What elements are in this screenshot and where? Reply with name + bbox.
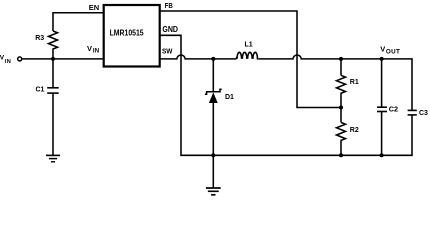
svg-text:R1: R1 xyxy=(350,79,359,86)
svg-text:LMR10515: LMR10515 xyxy=(110,28,144,38)
svg-text:IN: IN xyxy=(93,49,99,55)
svg-text:C1: C1 xyxy=(36,87,45,94)
svg-text:EN: EN xyxy=(89,3,99,12)
svg-text:L1: L1 xyxy=(245,42,253,49)
svg-text:R3: R3 xyxy=(35,35,44,42)
svg-text:GND: GND xyxy=(162,24,178,34)
svg-text:V: V xyxy=(380,45,385,54)
svg-text:C2: C2 xyxy=(389,104,398,113)
svg-text:OUT: OUT xyxy=(386,49,400,56)
svg-text:V: V xyxy=(87,44,92,53)
svg-text:D1: D1 xyxy=(225,94,234,101)
svg-text:IN: IN xyxy=(5,59,11,65)
svg-text:R2: R2 xyxy=(350,127,359,134)
svg-text:SW: SW xyxy=(162,48,173,55)
svg-text:C3: C3 xyxy=(419,110,428,117)
svg-text:FB: FB xyxy=(165,2,173,10)
